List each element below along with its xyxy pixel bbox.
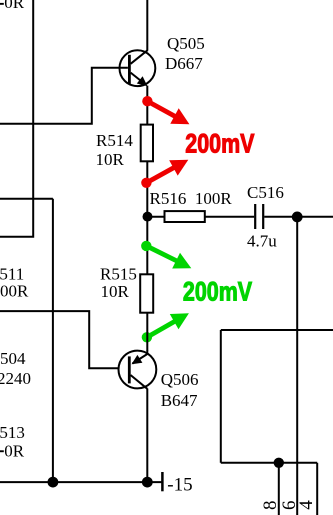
- svg-text:Q504: Q504: [0, 349, 26, 368]
- wire: [146, 86, 148, 125]
- wire -15 rail: [0, 481, 162, 483]
- connector box: [221, 330, 333, 463]
- svg-text:-15: -15: [167, 474, 192, 495]
- wire: [52, 199, 54, 482]
- wire: [146, 313, 148, 351]
- junction: [142, 477, 153, 488]
- svg-text:4.7u: 4.7u: [247, 232, 277, 251]
- wire: [146, 161, 148, 274]
- power terminal -15: [161, 472, 164, 491]
- svg-text:4: 4: [296, 500, 317, 510]
- wire: [148, 216, 255, 218]
- value label 40R (cut, top-left): [0, 3, 4, 5]
- wire pin 8: [278, 463, 280, 515]
- resistor R516: [165, 211, 205, 222]
- red probe dot: [141, 178, 151, 188]
- svg-text:8: 8: [260, 501, 281, 511]
- wire: [0, 198, 53, 200]
- value label 40R (cut): [0, 450, 4, 452]
- svg-text:R516 100R: R516 100R: [150, 189, 233, 208]
- green annotation arrow: [150, 313, 189, 336]
- capacitor C516: [255, 204, 263, 229]
- svg-text:10R: 10R: [96, 150, 125, 169]
- wire pin 4: [316, 463, 318, 515]
- wire: [146, 389, 148, 483]
- svg-text:D667: D667: [165, 54, 203, 73]
- svg-text:R513: R513: [0, 423, 25, 442]
- svg-text:100R: 100R: [0, 281, 29, 300]
- svg-text:Q505: Q505: [167, 34, 205, 53]
- wire: [0, 68, 128, 124]
- junction: [48, 477, 59, 488]
- wire: [0, 311, 119, 368]
- svg-text:C516: C516: [247, 183, 284, 202]
- svg-text:R514: R514: [96, 131, 133, 150]
- junction: [292, 212, 303, 223]
- green annotation arrow: [149, 247, 191, 268]
- wire: [146, 0, 148, 51]
- svg-text:10R: 10R: [101, 282, 130, 301]
- resistor R514: [141, 125, 153, 162]
- red probe dot: [142, 96, 152, 106]
- green probe dot: [141, 241, 151, 251]
- svg-text:200mV: 200mV: [183, 277, 253, 307]
- transistor Q506: [118, 351, 156, 389]
- svg-text:0R: 0R: [4, 441, 25, 460]
- svg-text:2240: 2240: [0, 369, 31, 388]
- junction: [274, 458, 284, 468]
- svg-text:B647: B647: [161, 391, 198, 410]
- svg-text:Q506: Q506: [161, 370, 199, 389]
- svg-text:200mV: 200mV: [185, 129, 255, 159]
- wire: [264, 216, 333, 218]
- resistor R515: [140, 274, 153, 312]
- transistor Q505: [119, 50, 155, 86]
- red annotation arrow: [150, 103, 189, 125]
- svg-text:0R: 0R: [4, 0, 25, 12]
- wire: [0, 0, 33, 237]
- red annotation arrow: [149, 160, 188, 182]
- green probe dot: [142, 332, 152, 342]
- svg-text:R515: R515: [100, 265, 137, 284]
- wire: [296, 217, 298, 515]
- junction: [143, 212, 153, 222]
